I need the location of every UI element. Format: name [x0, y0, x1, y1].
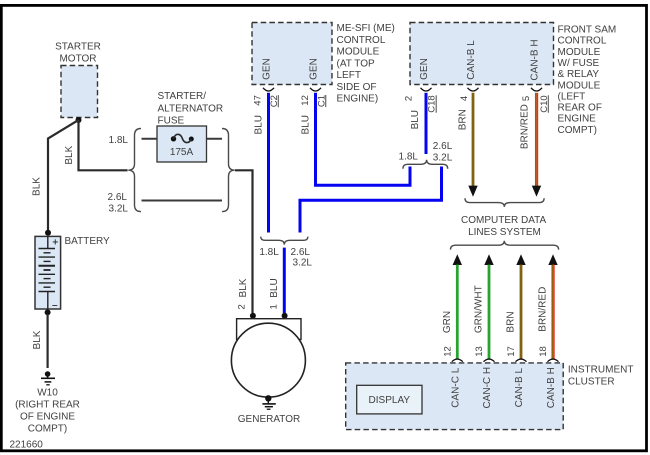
- svg-text:18: 18: [538, 346, 549, 357]
- wire BLK starter to battery: [32, 120, 79, 231]
- wire 1.8L fuse feed right: [191, 138, 222, 140]
- wire BLK battery to ground W10: [32, 314, 48, 368]
- svg-text:BLU: BLU: [269, 278, 280, 297]
- svg-text:GEN: GEN: [309, 58, 320, 80]
- svg-text:MODULE: MODULE: [337, 47, 380, 58]
- wire BRN CAN-B L to cluster pin 17: [506, 254, 526, 358]
- svg-text:+: +: [52, 238, 58, 249]
- svg-text:GEN: GEN: [419, 58, 430, 80]
- svg-text:GRN/WHT: GRN/WHT: [474, 285, 485, 333]
- svg-text:CAN-B L: CAN-B L: [514, 368, 525, 408]
- svg-text:BLK: BLK: [32, 330, 43, 349]
- brace computer data lines (lower): [451, 241, 559, 250]
- pin 12 connector arc: [310, 88, 321, 91]
- svg-text:2: 2: [404, 96, 415, 101]
- svg-text:BLU: BLU: [254, 115, 265, 134]
- svg-text:(RIGHT REAR: (RIGHT REAR: [15, 400, 80, 411]
- svg-text:LINES SYSTEM: LINES SYSTEM: [468, 227, 541, 238]
- svg-text:C2: C2: [269, 95, 280, 107]
- svg-text:BRN/RED: BRN/RED: [538, 287, 549, 332]
- wire BLU ME-SFI pin12 1.8L path: [300, 93, 410, 186]
- svg-text:BLU: BLU: [300, 115, 311, 134]
- fuse 175A starter/alternator: [157, 91, 223, 162]
- svg-text:BRN/RED: BRN/RED: [520, 104, 531, 149]
- wire BLU ME-SFI pin47 to variant brace: [254, 93, 269, 233]
- node starter junction: [76, 117, 82, 123]
- svg-text:C1: C1: [316, 95, 327, 107]
- svg-text:C18: C18: [427, 95, 438, 112]
- svg-text:221660: 221660: [10, 440, 44, 451]
- svg-text:–: –: [52, 300, 58, 311]
- svg-text:(LEFT: (LEFT: [558, 91, 586, 102]
- label computer data lines system: [461, 215, 547, 238]
- svg-text:STARTER/: STARTER/: [158, 91, 207, 102]
- svg-text:ENGINE): ENGINE): [337, 94, 379, 105]
- svg-text:47: 47: [253, 95, 264, 106]
- svg-text:12: 12: [442, 346, 453, 357]
- svg-text:COMPUTER DATA: COMPUTER DATA: [461, 215, 547, 226]
- wire BRN/RED CAN-B H to data lines: [520, 93, 542, 197]
- wire 1.8L fuse feed left: [142, 138, 175, 140]
- svg-text:1.8L: 1.8L: [109, 135, 129, 146]
- generator: [231, 319, 305, 425]
- svg-text:BLK: BLK: [64, 145, 75, 164]
- svg-text:STARTER: STARTER: [55, 42, 101, 53]
- svg-text:4: 4: [459, 96, 470, 101]
- node battery positive: [45, 230, 51, 236]
- pin 4 connector arc: [468, 88, 479, 91]
- svg-text:2.6L: 2.6L: [433, 141, 453, 152]
- svg-text:MOTOR: MOTOR: [59, 54, 96, 65]
- svg-text:3.2L: 3.2L: [109, 203, 129, 214]
- svg-text:CAN-C L: CAN-C L: [450, 367, 461, 407]
- wire BLK brace to generator pin 2: [235, 170, 253, 313]
- pin 13 connector arc (cluster): [484, 359, 495, 362]
- svg-text:& RELAY: & RELAY: [558, 69, 600, 80]
- svg-text:CAN-B H: CAN-B H: [546, 367, 557, 408]
- svg-text:BLU: BLU: [410, 110, 421, 129]
- svg-text:175A: 175A: [170, 147, 194, 158]
- svg-text:BLK: BLK: [238, 278, 249, 297]
- battery: [35, 236, 110, 311]
- svg-text:CONTROL: CONTROL: [558, 36, 607, 47]
- wire GRN/WHT CAN-C H to cluster pin 13: [474, 254, 494, 358]
- svg-text:1: 1: [268, 304, 279, 309]
- pin 47 connector arc: [263, 88, 274, 91]
- op module ME-SFI (ME) control module: [252, 23, 395, 105]
- brace computer data lines (upper): [465, 198, 544, 207]
- pin 2 connector arc: [421, 88, 432, 91]
- brace right (engine variants): [222, 129, 235, 212]
- svg-text:COMPT): COMPT): [28, 424, 67, 435]
- display unit: [357, 385, 422, 414]
- wire BRN/RED CAN-B H to cluster pin 18: [538, 254, 558, 358]
- brace variant merge near FRONT SAM: [399, 141, 453, 169]
- instrument cluster: [346, 363, 634, 430]
- svg-text:GENERATOR: GENERATOR: [238, 414, 300, 425]
- brace left (engine variants): [128, 129, 141, 212]
- svg-text:2: 2: [237, 304, 248, 309]
- svg-text:DISPLAY: DISPLAY: [369, 395, 411, 406]
- node generator pin 2: [250, 313, 256, 319]
- svg-text:C10: C10: [539, 95, 550, 112]
- svg-text:1.8L: 1.8L: [399, 152, 419, 163]
- svg-text:BLK: BLK: [32, 177, 43, 196]
- svg-text:5: 5: [521, 96, 532, 101]
- wire BRN CAN-B L to data lines: [457, 93, 477, 197]
- svg-text:CAN-B L: CAN-B L: [466, 40, 477, 80]
- svg-text:FRONT SAM: FRONT SAM: [558, 25, 617, 36]
- svg-text:MODULE: MODULE: [558, 80, 601, 91]
- wire GRN CAN-C L to cluster pin 12: [442, 254, 462, 358]
- svg-text:ENGINE: ENGINE: [558, 114, 597, 125]
- svg-text:COMPT): COMPT): [558, 125, 597, 136]
- svg-text:2.6L: 2.6L: [291, 247, 311, 258]
- svg-text:ALTERNATOR: ALTERNATOR: [158, 103, 224, 114]
- svg-text:LEFT: LEFT: [337, 70, 361, 81]
- svg-text:BRN: BRN: [506, 311, 517, 332]
- op module FRONT SAM control module: [410, 23, 616, 136]
- svg-text:SIDE OF: SIDE OF: [337, 82, 377, 93]
- node generator pin 1: [282, 313, 288, 319]
- wire BLK starter to fuse brace: [64, 120, 128, 170]
- svg-text:BRN: BRN: [457, 109, 468, 130]
- svg-text:1.8L: 1.8L: [259, 247, 279, 258]
- wire 2.6L 3.2L bypass path: [108, 192, 222, 214]
- svg-text:CLUSTER: CLUSTER: [568, 377, 615, 388]
- svg-text:(AT TOP: (AT TOP: [337, 58, 375, 69]
- svg-text:CONTROL: CONTROL: [337, 35, 386, 46]
- node battery negative: [45, 309, 51, 315]
- svg-text:BATTERY: BATTERY: [65, 236, 111, 247]
- svg-text:W/ FUSE: W/ FUSE: [558, 58, 600, 69]
- svg-text:FUSE: FUSE: [158, 116, 185, 127]
- ground generator: [262, 395, 275, 409]
- brace variant merge above generator: [259, 237, 312, 269]
- svg-text:CAN-C H: CAN-C H: [482, 367, 493, 409]
- wire BLU 2.6L/3.2L path to generator brace: [300, 167, 442, 233]
- svg-text:REAR OF: REAR OF: [558, 103, 602, 114]
- pin 17 connector arc (cluster): [516, 359, 527, 362]
- svg-text:INSTRUMENT: INSTRUMENT: [568, 365, 634, 376]
- pin 18 connector arc (cluster): [548, 359, 559, 362]
- svg-text:MODULE: MODULE: [558, 47, 601, 58]
- svg-text:3.2L: 3.2L: [433, 152, 453, 163]
- ground W10: [15, 371, 80, 434]
- svg-text:W10: W10: [37, 388, 58, 399]
- svg-text:17: 17: [506, 346, 517, 357]
- svg-text:12: 12: [300, 95, 311, 106]
- pin 12 connector arc (cluster): [452, 359, 463, 362]
- pin 5 connector arc: [531, 88, 542, 91]
- svg-text:2.6L: 2.6L: [108, 192, 128, 203]
- svg-text:CAN-B H: CAN-B H: [530, 39, 541, 80]
- starter motor: [55, 42, 101, 118]
- svg-text:ME-SFI (ME): ME-SFI (ME): [337, 23, 395, 34]
- svg-text:13: 13: [474, 346, 485, 357]
- svg-text:3.2L: 3.2L: [293, 258, 313, 269]
- wire BLU brace to generator pin 1: [268, 248, 284, 313]
- svg-text:OF ENGINE: OF ENGINE: [20, 412, 75, 423]
- wire BLU FRONT SAM GEN to variant brace: [410, 93, 426, 154]
- svg-text:GRN: GRN: [442, 311, 453, 333]
- svg-text:GEN: GEN: [262, 58, 273, 80]
